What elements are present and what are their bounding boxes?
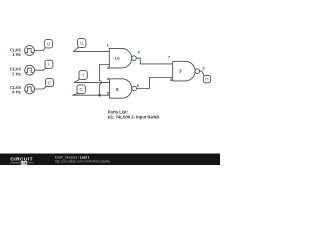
NAND gate U1 body (pins 1,2 out 3) xyxy=(109,48,136,68)
wire CLK5 output to flag C xyxy=(35,87,47,89)
net flag C at clock CLK5 xyxy=(46,78,54,86)
wire CLK4 output to flag I xyxy=(35,68,46,70)
junction of pin-2 wire with net C xyxy=(98,94,101,97)
NAND gate body (pins 7,8 out 9) xyxy=(173,61,200,81)
svg-text:U: U xyxy=(47,42,50,47)
svg-text:hitp://circuitlab.corn/c/7dk4k: hitp://circuitlab.corn/c/7dk4kz9cqfy6kp xyxy=(55,160,111,164)
svg-text:I: I xyxy=(48,62,49,67)
net flag I at gate pin 4 xyxy=(74,71,87,83)
svg-text:2 Hz: 2 Hz xyxy=(12,71,21,76)
wire net I to pin 4 xyxy=(74,81,109,83)
NAND gate body (pins 4,5 out 6) xyxy=(110,79,137,98)
svg-text:U1: U1 xyxy=(115,56,121,61)
wire gate1 output pin 3 to gate3 pin 7 xyxy=(136,58,172,64)
svg-text:I: I xyxy=(83,73,84,78)
svg-text:U: U xyxy=(80,41,83,46)
net flag H at output xyxy=(203,75,210,82)
svg-text:U1: 74LS00 2- input NAND: U1: 74LS00 2- input NAND xyxy=(108,115,160,120)
clock source CLK6 (1 Hz) xyxy=(25,46,35,56)
wire pin 2 down to net C, hopping over net I wire xyxy=(100,65,110,96)
clock source CLK4 (2 Hz) xyxy=(25,65,35,75)
wire CLK6 output to flag U xyxy=(34,48,45,51)
wire gate3 output pin 9 to flag H xyxy=(200,71,205,76)
svg-text:H: H xyxy=(205,77,208,82)
CircuitLab logo xyxy=(10,157,33,165)
net flag I at clock CLK4 xyxy=(45,60,53,68)
svg-text:7: 7 xyxy=(168,54,170,59)
svg-text:Parts List:: Parts List: xyxy=(108,109,128,114)
svg-text:4 Hz: 4 Hz xyxy=(12,90,21,95)
svg-text:1 Hz: 1 Hz xyxy=(12,52,21,57)
footer watermark bar xyxy=(0,154,220,166)
net flag U at clock CLK6 xyxy=(45,40,53,48)
wire net U to pin 1 xyxy=(74,51,110,53)
net flag C at gate pin 5 xyxy=(73,85,86,95)
clock source CLK5 (4 Hz) xyxy=(25,84,35,94)
wire gate2 output pin 6 to gate3 pin 8 xyxy=(137,78,173,89)
wire net C to pin 5 xyxy=(73,94,110,96)
net flag U at gate U1 pin 1 xyxy=(74,39,86,52)
svg-text:LAB: LAB xyxy=(21,161,27,165)
